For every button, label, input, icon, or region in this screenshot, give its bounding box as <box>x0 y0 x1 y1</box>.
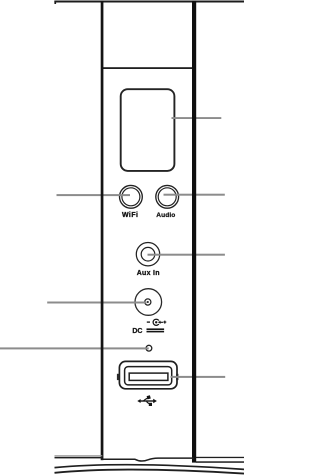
svg-text:Aux In: Aux In <box>137 270 160 277</box>
svg-text:DC: DC <box>132 328 142 335</box>
panel top divider <box>102 67 194 69</box>
top edge left tick <box>54 1 56 5</box>
svg-text:WiFi: WiFi <box>122 212 139 219</box>
table edge line <box>55 470 245 474</box>
DC power jack barrel <box>135 289 162 316</box>
DC polarity icon <box>147 319 167 325</box>
bottom right ledge line upper <box>196 457 244 458</box>
Aux In jack outer ring <box>136 243 159 266</box>
WiFi antenna connector inner ring <box>122 188 140 206</box>
USB port outer shell <box>119 361 177 388</box>
USB port right tab <box>176 374 178 380</box>
Audio connector outer ring <box>156 185 179 208</box>
USB port inner shroud <box>125 367 172 385</box>
cabinet bottom edge <box>102 458 195 461</box>
speaker slot opening <box>121 89 175 171</box>
bottom right ledge line lower <box>196 461 244 463</box>
bottom left body line gray <box>55 455 103 456</box>
USB trident icon <box>137 395 157 406</box>
table surface line <box>55 465 245 470</box>
callout line to Audio connector <box>164 194 225 196</box>
callout line to DC jack <box>47 302 146 304</box>
top edge line <box>54 1 244 3</box>
reset pinhole <box>146 345 152 351</box>
callout line to WiFi connector <box>57 194 131 196</box>
USB port tongue <box>129 373 168 380</box>
Aux In jack inner ring <box>141 247 155 261</box>
DC bars <box>147 328 165 330</box>
Audio connector inner ring <box>158 188 176 206</box>
bottom left body line dark <box>55 457 103 459</box>
callout line to slot opening <box>172 117 222 119</box>
USB port left tab <box>117 374 119 380</box>
right cabinet edge <box>192 1 196 463</box>
callout line to reset pinhole <box>0 347 149 349</box>
callout line to Aux In jack <box>148 254 225 256</box>
left cabinet edge <box>101 1 104 460</box>
WiFi antenna connector outer ring <box>119 185 142 208</box>
callout line to USB port <box>171 376 226 378</box>
svg-text:Audio: Audio <box>156 212 175 219</box>
DC power jack center pin <box>145 299 151 305</box>
